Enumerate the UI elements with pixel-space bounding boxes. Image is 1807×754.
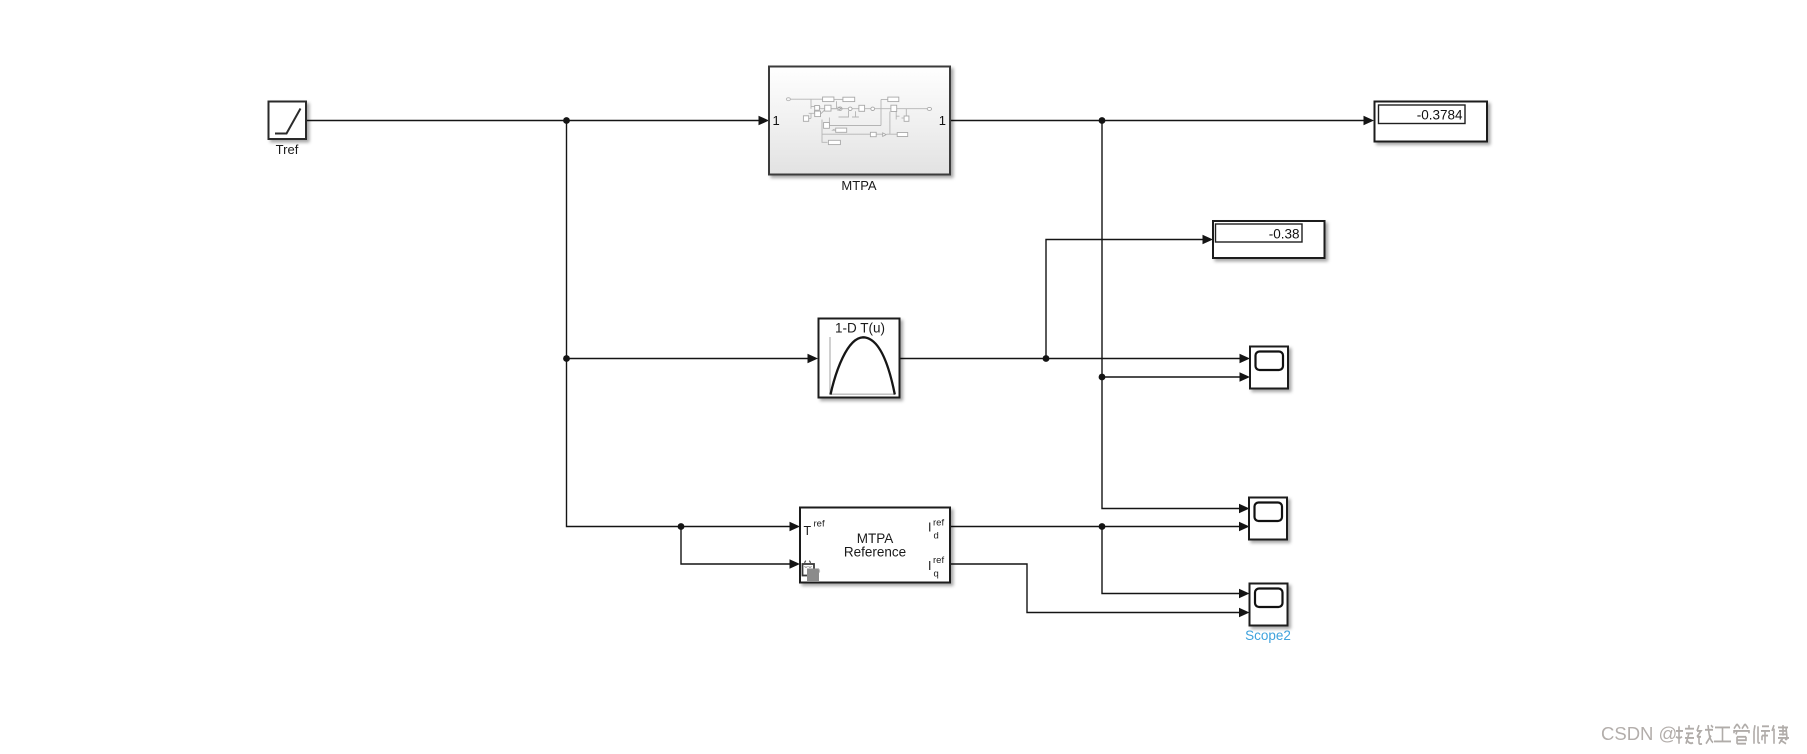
svg-text:T: T — [804, 524, 812, 538]
svg-text:q: q — [934, 569, 939, 580]
svg-text:1-D T(u): 1-D T(u) — [835, 321, 885, 336]
svg-text:ref: ref — [814, 519, 825, 530]
svg-text:Reference: Reference — [844, 545, 906, 560]
svg-text:d: d — [934, 531, 939, 542]
svg-text:ref: ref — [933, 518, 944, 529]
svg-text:1: 1 — [939, 113, 946, 128]
svg-text:CSDN @: CSDN @ — [1601, 723, 1677, 744]
svg-text:Scope2: Scope2 — [1245, 628, 1291, 643]
svg-text:I: I — [928, 559, 931, 573]
svg-text:Tref: Tref — [276, 142, 299, 157]
svg-text:1: 1 — [773, 113, 780, 128]
svg-text:ref: ref — [933, 555, 944, 566]
svg-text:I: I — [928, 521, 931, 535]
svg-text:-0.3784: -0.3784 — [1417, 108, 1463, 123]
svg-text:MTPA: MTPA — [841, 178, 876, 193]
svg-text:-0.38: -0.38 — [1269, 226, 1300, 241]
